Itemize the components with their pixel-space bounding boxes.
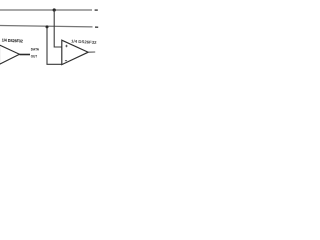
pin marker + (noninverting input of U2) xyxy=(65,45,67,47)
svg-text:OUT: OUT xyxy=(31,54,38,59)
svg-text:1/4 DS26F32: 1/4 DS26F32 xyxy=(71,38,98,45)
wire bus line A (top) xyxy=(0,9,92,11)
wire from line A to noninverting input of U2 xyxy=(54,10,62,47)
op-amp U2 (right receiver, 1/4 DS26F32) xyxy=(62,40,88,64)
wire dashed continuation of line A xyxy=(95,9,98,11)
node junction dot on line B xyxy=(46,25,49,28)
pin marker - (inverting input of U2) xyxy=(65,60,67,62)
svg-text:1/4 DS26F32: 1/4 DS26F32 xyxy=(2,37,24,43)
op-amp U1 (left receiver, 1/4 DS26F32) xyxy=(0,45,20,64)
wire U2 output xyxy=(88,51,95,53)
svg-text:DATA: DATA xyxy=(31,47,39,52)
wire dashed continuation of line B xyxy=(95,26,98,28)
node junction dot on line A xyxy=(53,8,56,11)
wire from line B to inverting input of U2 xyxy=(47,27,62,64)
wire bus line B (second) xyxy=(0,26,93,27)
wire U1 output to DATA OUT xyxy=(20,54,31,56)
